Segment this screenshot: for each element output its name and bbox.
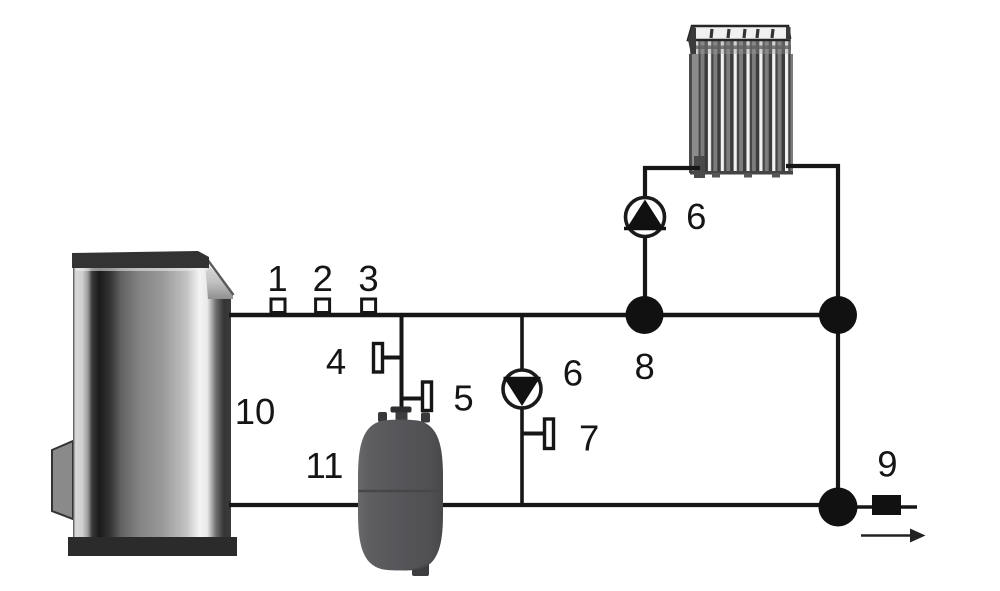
svg-text:1: 1 xyxy=(267,258,287,299)
meter 9 xyxy=(872,495,901,515)
svg-text:3: 3 xyxy=(358,258,378,299)
valve 5 xyxy=(402,382,432,411)
valve 4 xyxy=(374,344,403,373)
wire: riser to radiator left xyxy=(645,168,700,315)
wire: bottom return pipe from boiler xyxy=(229,503,838,507)
boiler tank body (10) xyxy=(52,251,237,556)
sensor 1 xyxy=(271,299,285,313)
sensor 3 xyxy=(362,299,376,313)
node 8 junction xyxy=(626,296,664,334)
pump 6 (radiator circuit) xyxy=(624,198,666,237)
svg-text:7: 7 xyxy=(579,418,599,459)
wire: radiator right drop xyxy=(786,166,838,507)
radiator xyxy=(688,26,793,178)
pump 6 (boiler circuit) xyxy=(503,370,541,408)
sensor 2 xyxy=(316,299,330,313)
svg-text:8: 8 xyxy=(635,346,655,387)
valve 7 xyxy=(522,419,554,449)
svg-text:6: 6 xyxy=(563,353,583,394)
svg-text:4: 4 xyxy=(326,341,346,382)
svg-text:6: 6 xyxy=(686,196,706,237)
wire: top supply pipe from boiler xyxy=(229,313,838,317)
node junction bottom right xyxy=(819,488,858,527)
svg-text:10: 10 xyxy=(235,391,276,432)
wire: branch to expansion tank xyxy=(400,315,404,414)
node junction top right xyxy=(819,296,857,334)
wire: outlet to meter 9 xyxy=(838,505,917,509)
svg-text:5: 5 xyxy=(453,378,473,419)
flow arrow xyxy=(861,529,926,543)
svg-text:2: 2 xyxy=(313,258,333,299)
svg-text:9: 9 xyxy=(877,444,897,485)
expansion tank 11 xyxy=(358,407,443,577)
wire: middle branch with pump xyxy=(520,315,524,505)
svg-text:11: 11 xyxy=(306,445,344,486)
